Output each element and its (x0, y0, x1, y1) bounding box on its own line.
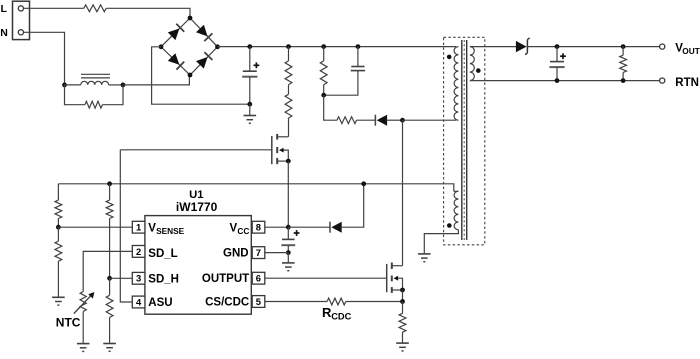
node aux-R6 (107, 181, 112, 186)
label VSENSE pin1 (148, 223, 184, 237)
node secondary dot (476, 68, 481, 73)
inductor L1 (filter choke) (81, 74, 110, 85)
svg-text:3: 3 (136, 273, 141, 284)
node VSENSE tap (56, 225, 61, 230)
transformer shield box (444, 37, 485, 245)
startup resistor R3 (285, 94, 292, 118)
node bus-Rclamp (321, 44, 326, 49)
wire L to fuse (24, 7, 84, 9)
node C4 bottom (555, 78, 560, 83)
label U1 (189, 189, 203, 201)
node primary dot (447, 55, 452, 60)
wire pin 7 stub (265, 252, 289, 254)
secondary winding T1-S (470, 47, 660, 81)
wire pin 2 to NTC (83, 251, 132, 291)
bridge diode D4 (bottom-right) (196, 52, 212, 68)
wire pin 8 stub (265, 226, 289, 228)
aux winding T1-A (424, 191, 458, 254)
node aux-D5 junction (361, 181, 366, 186)
svg-text:CS/CDC: CS/CDC (205, 296, 249, 308)
svg-text:7: 7 (256, 247, 261, 258)
node bridge left (159, 44, 164, 49)
svg-text:6: 6 (256, 273, 261, 284)
svg-text:ASU: ASU (148, 297, 172, 309)
AC input terminal block J1 (13, 1, 30, 39)
svg-text:2: 2 (136, 246, 141, 257)
svg-text:V: V (230, 223, 238, 235)
damping resistor R1 across choke (65, 85, 124, 108)
diode D6 (clamp) (375, 115, 387, 126)
wire switch node to Q2 drain (402, 120, 404, 266)
svg-text:SENSE: SENSE (156, 226, 185, 236)
node SD_H tap (107, 276, 112, 281)
wire pin 6 OUTPUT to gate (265, 277, 387, 279)
pin 5 box (252, 296, 265, 308)
node aux dot (447, 223, 452, 228)
node bridge top (188, 16, 193, 21)
thermistor NTC (74, 292, 95, 344)
wire C1 to ground (249, 104, 251, 115)
label iW1770 (176, 200, 218, 214)
ground aux winding (418, 254, 431, 262)
wire VCC to D5 (288, 226, 330, 228)
node C1 bottom / DC- junction (247, 102, 252, 107)
label N (0, 27, 8, 39)
wire clamp to series R (324, 95, 337, 120)
node VCC (286, 225, 291, 230)
label VCC pin8 (230, 223, 250, 237)
wire N down (24, 32, 65, 85)
wire VSENSE to pin 1 (58, 226, 131, 228)
node bus-C1 (247, 44, 252, 49)
node clamp bottom (321, 93, 326, 98)
wire aux sense line (58, 184, 453, 192)
fusible resistor RF1 (84, 5, 106, 12)
wire D7 to VOUT (528, 46, 660, 48)
primary winding T1-P (454, 47, 458, 121)
sense resistor R10 (399, 302, 406, 344)
label RTN (675, 77, 699, 89)
resistor R7 (SD_H divider lower) (106, 278, 113, 343)
svg-text:GND: GND (223, 247, 249, 259)
transformer shield line (463, 40, 465, 240)
wire pin 5 stub (265, 301, 327, 303)
diode D7 (output schottky) (516, 38, 530, 54)
wire switch node to primary (403, 119, 457, 121)
wire R3 to Q1 drain (288, 118, 290, 137)
svg-text:iW1770: iW1770 (176, 200, 218, 214)
transistor Q1 (startup MOSFET) (272, 134, 289, 164)
node switch node (400, 118, 405, 123)
load resistor R11 (620, 47, 627, 81)
wire SD_H to pin 3 (110, 277, 132, 279)
wire bridge DC- return (152, 47, 250, 104)
svg-text:V: V (148, 223, 156, 235)
wire fuse to bridge top (106, 8, 190, 18)
node C4 top (555, 44, 560, 49)
label CS/CDC pin5 (205, 296, 249, 308)
pin 2 box (132, 246, 145, 258)
wire GND down (287, 253, 289, 263)
wire Q2 source down (402, 290, 404, 302)
resistor R5 (sense divider lower) (55, 227, 62, 297)
ground R7 (103, 344, 116, 352)
wire AC to bridge bottom (123, 75, 189, 85)
svg-text:NTC: NTC (56, 315, 81, 329)
ground NTC (77, 344, 90, 352)
ground sense resistor (396, 343, 409, 351)
label SD_H pin3 (148, 273, 179, 285)
bridge diode D2 (top-right) (196, 25, 212, 41)
label VOUT (675, 43, 700, 56)
node N-choke junction (62, 83, 67, 88)
svg-text:4: 4 (136, 296, 142, 307)
label NTC (56, 315, 81, 329)
label SD_L pin2 (148, 248, 177, 260)
resistor R4 (sense divider upper) (55, 184, 62, 227)
clamp capacitor C3 (324, 47, 365, 96)
pin 6 box (252, 272, 265, 284)
pin 1 box (132, 221, 145, 233)
terminal RTN (660, 78, 665, 83)
ground IC (282, 263, 295, 271)
ground bulk cap (244, 116, 257, 124)
wire Q1 source to VCC node (287, 161, 289, 227)
svg-text:CDC: CDC (331, 312, 351, 322)
clamp resistor R8 (320, 47, 327, 96)
wire R9 to D6 (357, 119, 376, 121)
svg-text:5: 5 (256, 296, 261, 307)
svg-text:OUT: OUT (682, 46, 700, 56)
wire D6 to switch node (387, 119, 403, 121)
terminal VOUT (660, 44, 665, 49)
svg-text:1: 1 (136, 222, 141, 233)
wire RCDC to source node (346, 301, 403, 303)
node CS junction (400, 299, 405, 304)
wire between startup resistors (288, 85, 290, 95)
clamp series resistor R9 (337, 117, 357, 124)
node load resistor bottom (621, 78, 626, 83)
node clamp junction (356, 44, 361, 49)
wire choke to junction (109, 84, 123, 86)
node bridge right (215, 44, 220, 49)
node Q1 source-body (286, 159, 291, 164)
transistor Q2 (power MOSFET) (387, 263, 403, 293)
pin 4 box (132, 296, 145, 308)
label OUTPUT pin6 (202, 273, 249, 285)
wire DC bus rail (218, 46, 457, 48)
svg-text:CC: CC (237, 226, 249, 236)
bridge diode D3 (left-bottom) (168, 53, 184, 69)
label RCDC (322, 305, 352, 321)
svg-text:OUTPUT: OUTPUT (202, 273, 249, 285)
pin 7 box (252, 247, 265, 259)
svg-text:SD_L: SD_L (148, 248, 177, 260)
pin 3 box (132, 272, 145, 284)
node bus-Rstartup (286, 44, 291, 49)
wire D5 to aux (341, 184, 364, 227)
node choke-right junction (121, 83, 126, 88)
label L (1, 3, 8, 15)
wire Q1 gate line (120, 149, 271, 151)
startup resistor R2 (285, 47, 292, 85)
svg-text:N: N (0, 27, 8, 39)
capacitor C2 (VCC) (281, 227, 299, 252)
node GND pin7 junction (286, 250, 291, 255)
output capacitor C4 (549, 47, 566, 81)
svg-text:U1: U1 (189, 189, 203, 201)
ground R5 (52, 297, 65, 305)
wire to choke (65, 84, 81, 86)
op-amp U1 iW1770 body (145, 216, 251, 315)
node load resistor top (621, 44, 626, 49)
pin 8 box (252, 221, 265, 233)
svg-text:SD_H: SD_H (148, 273, 179, 285)
svg-text:8: 8 (256, 222, 261, 233)
resistor RCDC (327, 298, 346, 305)
wire ASU line (120, 150, 132, 302)
node bridge bottom (188, 73, 193, 78)
label GND pin7 (223, 247, 249, 259)
label ASU pin4 (148, 297, 172, 309)
bulk capacitor C1 (242, 47, 259, 105)
svg-text:RTN: RTN (675, 77, 699, 89)
svg-text:L: L (1, 3, 8, 15)
resistor R6 (SD_H divider upper) (106, 184, 113, 278)
diode D5 (VCC rectifier) (330, 222, 342, 233)
bridge diode D1 (left-top) (168, 24, 184, 40)
transformer core (462, 40, 467, 240)
bridge wire edges (161, 18, 218, 75)
node Q2 source-body (400, 288, 405, 293)
